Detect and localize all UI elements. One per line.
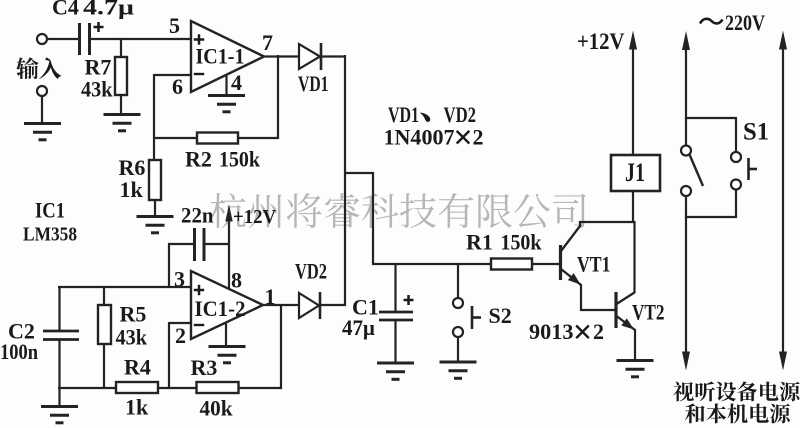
svg-text:4.7µ: 4.7µ [83, 0, 134, 20]
svg-text:150k: 150k [219, 147, 261, 172]
resistor R6 [149, 160, 161, 200]
wire S1 top bar [685, 117, 737, 119]
svg-text:+12V: +12V [233, 206, 277, 228]
wire pin6 [154, 74, 191, 76]
wire bottom rail left [58, 387, 117, 389]
wire 22n to pin3 [168, 243, 170, 288]
input terminal upper [37, 34, 47, 44]
svg-text:43k: 43k [116, 325, 148, 350]
svg-text:S2: S2 [489, 303, 512, 328]
svg-text:R1: R1 [466, 230, 493, 255]
resistor R7 [115, 57, 127, 95]
svg-text:3: 3 [174, 267, 185, 292]
diode VD2 [299, 293, 319, 318]
svg-text:VD1: VD1 [388, 102, 419, 127]
wire VT1 emitter down [580, 284, 582, 311]
svg-text:22n: 22n [181, 203, 214, 228]
svg-text:LM358: LM358 [23, 224, 77, 246]
wire feedback up [277, 55, 279, 139]
svg-text:2: 2 [593, 319, 604, 344]
wire R6 to ground [154, 200, 156, 218]
wire C2 drop [58, 286, 60, 331]
wire branch right [344, 172, 374, 174]
wire C2 ground stub [58, 388, 60, 407]
wire VT2 collector up [633, 221, 635, 293]
wire R1 to VT1 base [532, 263, 559, 265]
ground C2 [41, 407, 78, 423]
minus input IC1-1 [194, 73, 204, 75]
wire C1 to ground [394, 320, 396, 364]
switch S1 actuator [749, 158, 758, 180]
wire branch down [372, 172, 374, 265]
svg-text:R2: R2 [185, 147, 212, 172]
wire VT2 emitter to ground [634, 329, 636, 362]
op-amp U2 IC1-2 [191, 271, 263, 339]
wire VT1 emitter to VT2 base [580, 309, 615, 311]
label 和本机电源 [685, 403, 790, 423]
wire input to C4 [46, 38, 79, 40]
wire S1 left upper [685, 117, 687, 146]
polarity + of C1 [404, 295, 414, 305]
svg-text:2: 2 [473, 125, 484, 150]
svg-text:VT2: VT2 [632, 300, 665, 325]
relay contact J1-1 lower [681, 186, 691, 196]
wire S1 bottom bar [685, 216, 737, 218]
svg-text:R3: R3 [191, 355, 218, 380]
wire main node to R1 [372, 263, 491, 265]
wire R7 to ground [120, 95, 122, 116]
wire output2 junction up [280, 304, 282, 389]
relay J1 [611, 155, 660, 191]
wire VT1 collector top [579, 221, 635, 223]
wire S1 right lower [735, 189, 737, 218]
wire C2 to bottom rail [58, 339, 60, 389]
relay contact J1-1 upper [681, 146, 691, 156]
svg-text:220V: 220V [725, 10, 765, 35]
svg-text:J1: J1 [625, 158, 645, 187]
wire C4 to pin5 [91, 38, 191, 40]
wire R4 to R3 [158, 387, 197, 389]
wire VD2 to junction [320, 304, 346, 306]
wire IC1-2 gnd stub [225, 323, 227, 347]
svg-text:IC1-1: IC1-1 [196, 44, 245, 69]
capacitor 22n wire right [205, 243, 230, 245]
resistor R1 [491, 259, 532, 270]
transistor Q1 VT1 [559, 245, 562, 280]
wire R2 left [154, 137, 197, 139]
svg-text:C4: C4 [52, 0, 79, 20]
capacitor C2 [43, 331, 79, 340]
svg-text:7: 7 [262, 30, 273, 55]
wire pin2 [169, 322, 191, 324]
wire R5 top [103, 286, 105, 306]
svg-text:IC1: IC1 [35, 198, 65, 223]
svg-text:6: 6 [172, 74, 183, 99]
svg-text:2: 2 [175, 323, 186, 348]
svg-text:IC1-2: IC1-2 [195, 296, 246, 321]
label ~220V tilde [700, 19, 723, 24]
wire R2 right [238, 137, 278, 139]
resistor R5 [98, 305, 111, 344]
wire junction R7 drop [120, 38, 122, 57]
svg-text:VD2: VD2 [444, 102, 477, 127]
wire R3 right [238, 387, 282, 389]
power 220V left line [682, 31, 690, 50]
ground input [24, 124, 61, 140]
wire S1 right branch [735, 118, 737, 153]
svg-text:9013: 9013 [529, 319, 574, 344]
wire pin2 down [168, 322, 170, 389]
svg-text:40k: 40k [200, 396, 234, 421]
plus input IC1-1 [194, 34, 204, 44]
op-amp U1 IC1-1 [191, 21, 264, 92]
power +12V arrow left [225, 205, 232, 222]
wire R5 bottom [103, 344, 105, 389]
wire output pin7 [264, 55, 299, 57]
label 输入 [16, 57, 61, 79]
ground IC1-2 [209, 347, 246, 363]
wire junction VD1-VD2 vertical [344, 55, 346, 306]
svg-text:S1: S1 [743, 119, 769, 146]
svg-text:VD1: VD1 [298, 71, 329, 96]
svg-text:43k: 43k [81, 77, 113, 102]
relay contact blade [690, 155, 704, 187]
wire pin3 [58, 286, 191, 288]
wire J1 to collector line [632, 190, 634, 223]
polarity + of C4 [94, 22, 104, 32]
svg-text:5: 5 [169, 13, 180, 38]
wire lower terminal stub [41, 96, 43, 125]
minus input IC1-2 [194, 324, 204, 326]
watermark 杭州将睿科技有限公司 [210, 193, 586, 228]
switch S2 contact upper [453, 298, 463, 308]
svg-text:R5: R5 [120, 302, 147, 327]
ground VT2 [617, 361, 654, 377]
transistor Q2 VT2 [614, 292, 617, 328]
svg-text:1N4007: 1N4007 [384, 125, 455, 150]
wire mains right [779, 31, 787, 50]
switch S1 contact upper [731, 152, 741, 162]
svg-text:4: 4 [231, 70, 242, 95]
capacitor 22n [195, 228, 205, 261]
plus input IC1-2 [194, 285, 204, 295]
svg-text:100n: 100n [0, 339, 38, 364]
wire IC1-1 gnd stub [225, 76, 227, 96]
svg-text:1k: 1k [125, 395, 149, 420]
svg-text:VT1: VT1 [577, 252, 611, 277]
wire S1 left lower [685, 196, 687, 219]
resistor R2 [197, 133, 238, 144]
capacitor 22n wire left [168, 243, 193, 245]
capacitor C1 [379, 312, 413, 320]
wire output pin1 [263, 304, 299, 306]
wire pin6 down to R6 [153, 74, 155, 160]
svg-text:+12V: +12V [577, 29, 625, 54]
label 视听设备电源 [673, 381, 799, 401]
wire S2 to ground [457, 337, 459, 363]
resistor R4 [116, 382, 158, 393]
switch S2 contact lower [453, 327, 463, 337]
svg-text:150k: 150k [501, 230, 543, 255]
input terminal lower [37, 86, 47, 96]
wire mains left down [685, 216, 687, 354]
ground R6 [137, 217, 174, 233]
wire VD1 to junction [321, 55, 346, 57]
svg-text:1k: 1k [120, 177, 144, 202]
svg-text:VD2: VD2 [295, 259, 327, 284]
wire C1 drop [394, 263, 396, 312]
power +12V arrow right [629, 31, 637, 50]
capacitor C4 [80, 23, 90, 55]
diode VD1 [299, 44, 320, 69]
ground IC1-1 [208, 96, 245, 112]
svg-text:R4: R4 [124, 355, 151, 380]
ground C1 [377, 363, 414, 379]
svg-text:47µ: 47µ [342, 315, 375, 340]
ground S2 [440, 362, 477, 378]
ground R7 [104, 115, 141, 131]
resistor R3 [197, 382, 239, 393]
wire S2 drop [457, 263, 459, 299]
switch S1 contact lower [731, 180, 741, 190]
svg-text:8: 8 [231, 268, 242, 293]
switch S2 actuator [472, 306, 481, 329]
